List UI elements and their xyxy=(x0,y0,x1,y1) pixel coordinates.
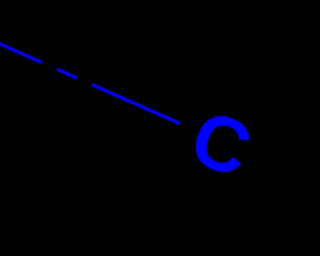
wire segment 2 (dashed bond, middle dash) xyxy=(57,69,77,78)
wire segment 3 (dashed bond, last long dash) xyxy=(92,85,180,124)
wire segment 1 (dashed bond, first long dash) xyxy=(0,43,42,63)
